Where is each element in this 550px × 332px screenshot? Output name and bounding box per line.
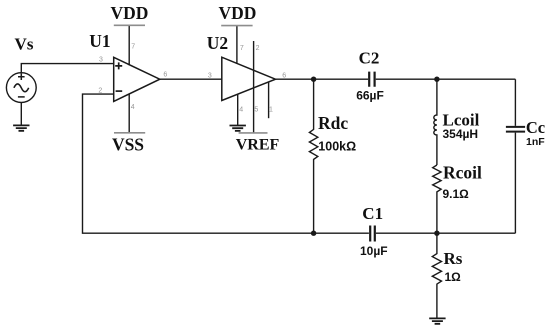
wire (U1 pin 7 to VDD): [128, 25, 130, 65]
svg-text:Cc: Cc: [526, 118, 545, 137]
svg-text:10µF: 10µF: [360, 244, 388, 258]
svg-text:U2: U2: [207, 33, 228, 53]
op-amp U1: [114, 57, 160, 101]
svg-text:3: 3: [99, 57, 103, 64]
wire (U2 pin 1 stub): [268, 82, 270, 119]
svg-text:3: 3: [208, 72, 212, 79]
svg-text:9.1Ω: 9.1Ω: [443, 187, 470, 201]
svg-text:6: 6: [163, 72, 167, 79]
capacitor Cc: [514, 79, 516, 233]
svg-text:2: 2: [98, 88, 102, 95]
VDD bar (U1): [114, 24, 145, 26]
wire (U2 pin 4 to ground): [237, 94, 239, 125]
svg-text:66µF: 66µF: [356, 89, 384, 103]
svg-text:Rs: Rs: [444, 249, 463, 268]
node (top of Lcoil): [434, 77, 439, 82]
wire (C2 to top-right corner): [376, 78, 516, 80]
wire (U1 output to U2 input): [160, 78, 222, 80]
svg-text:7: 7: [240, 45, 244, 52]
svg-text:VSS: VSS: [112, 135, 144, 155]
node (top of Rdc): [311, 77, 316, 82]
svg-text:4: 4: [131, 104, 135, 111]
svg-text:6: 6: [282, 72, 286, 79]
svg-text:VREF: VREF: [236, 137, 280, 154]
svg-text:1Ω: 1Ω: [445, 270, 462, 284]
svg-text:2: 2: [256, 45, 260, 52]
VDD bar (U2): [221, 25, 252, 27]
svg-text:VDD: VDD: [111, 3, 149, 23]
wire (U2 pin 2 / pin 5 through body to VREF): [253, 41, 255, 133]
wire (U2 output along top to C2): [276, 78, 369, 80]
svg-text:100kΩ: 100kΩ: [318, 140, 356, 154]
svg-text:4: 4: [239, 106, 243, 113]
ground (below Vs): [13, 125, 29, 130]
svg-text:Rcoil: Rcoil: [443, 163, 482, 183]
svg-text:5: 5: [254, 106, 258, 113]
capacitor C1: [370, 226, 375, 242]
svg-text:1: 1: [269, 106, 273, 113]
capacitor C2: [369, 72, 374, 87]
resistor Rs: [432, 233, 441, 318]
ground (below Rs): [429, 318, 445, 323]
node (bottom of Rdc): [311, 231, 316, 236]
svg-text:U1: U1: [89, 31, 110, 51]
svg-text:Vs: Vs: [15, 35, 34, 54]
VSS bar: [114, 132, 145, 134]
wire (U1 pin 4 to VSS): [128, 94, 130, 133]
svg-text:Rdc: Rdc: [318, 113, 348, 133]
svg-text:1nF: 1nF: [526, 136, 545, 148]
op-amp U2: [222, 57, 276, 100]
voltage source Vs: [6, 64, 113, 126]
resistor Rcoil: [433, 165, 441, 233]
node (junction Rcoil / C1 / Rs): [434, 231, 439, 236]
svg-text:VDD: VDD: [219, 3, 257, 23]
ground (U2 pin 4): [230, 126, 246, 131]
wire (U1 inverting input feedback, down left side and along bottom to C1): [83, 94, 369, 233]
svg-text:7: 7: [131, 43, 135, 50]
svg-text:C1: C1: [362, 204, 383, 223]
resistor Rdc: [309, 79, 317, 233]
svg-text:C2: C2: [359, 49, 380, 68]
wire (U2 pin 7 to VDD): [236, 26, 238, 64]
VREF bar: [239, 132, 268, 134]
wire (C1 right side to bottom-right corner): [376, 232, 516, 234]
svg-text:354µH: 354µH: [443, 127, 479, 141]
inductor Lcoil: [434, 79, 437, 165]
